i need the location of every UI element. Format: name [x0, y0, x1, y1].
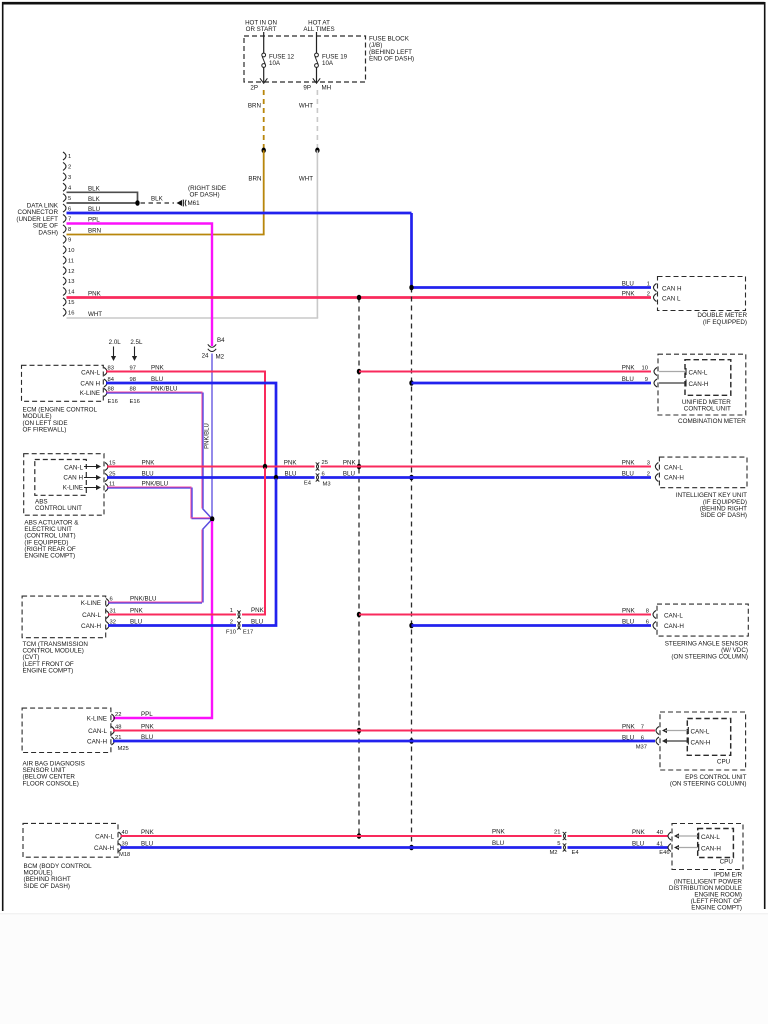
node splice BRN: [262, 148, 266, 154]
ECM pins: [104, 368, 107, 376]
wire BRN horizontal to DLC pin 8: [67, 234, 265, 236]
svg-text:41: 41: [657, 841, 663, 847]
CAN-L bus dashed vertical: [358, 298, 360, 837]
svg-text:BLU: BLU: [492, 840, 504, 847]
svg-text:6: 6: [641, 735, 644, 741]
svg-text:PPL: PPL: [141, 711, 153, 718]
svg-text:K-LINE: K-LINE: [80, 390, 100, 397]
svg-text:2.0L: 2.0L: [109, 339, 122, 346]
node K-line splice: [203, 520, 212, 530]
svg-text:PNK: PNK: [151, 365, 165, 372]
wire BLU ECM CAN-H down to ABS row: [106, 383, 276, 477]
svg-text:PNK: PNK: [141, 829, 155, 836]
wire BLU TCM CAN-H up to ABS row: [108, 479, 276, 626]
svg-text:OR START: OR START: [246, 26, 277, 33]
svg-text:2: 2: [68, 165, 71, 171]
steering angle sensor dashed box: [657, 604, 748, 636]
svg-text:10A: 10A: [269, 60, 281, 67]
svg-text:9: 9: [645, 377, 648, 383]
svg-text:MH: MH: [322, 85, 332, 92]
wire PNK/BLU TCM K-LINE: [108, 601, 202, 603]
svg-text:K-LINE: K-LINE: [81, 600, 101, 607]
svg-text:CAN-H: CAN-H: [94, 845, 114, 852]
svg-text:E16: E16: [108, 399, 118, 405]
svg-text:CAN-H: CAN-H: [701, 845, 721, 852]
svg-text:PNK: PNK: [142, 460, 156, 467]
svg-text:PNK: PNK: [130, 608, 144, 615]
connector M2 / E4 bottom row: [562, 832, 568, 841]
IPDM internal wires: [674, 833, 679, 838]
svg-text:2: 2: [647, 471, 650, 477]
svg-text:CAN-L: CAN-L: [701, 834, 720, 841]
IPDM CPU inner dashed box: [698, 829, 734, 858]
svg-text:9P: 9P: [303, 85, 311, 92]
svg-text:E46: E46: [659, 850, 669, 856]
BCM pins: [119, 832, 122, 840]
connector B4 / M2 pin 24: [208, 344, 216, 347]
svg-text:M37: M37: [636, 744, 647, 750]
wire WHT dashed from fuse 19: [316, 90, 318, 149]
svg-text:BLU: BLU: [622, 470, 634, 477]
svg-text:CAN-L: CAN-L: [691, 728, 710, 735]
svg-text:BLK: BLK: [88, 196, 101, 203]
svg-text:14: 14: [68, 290, 75, 296]
svg-text:2: 2: [230, 619, 233, 625]
wire from HOT IN ON to fuse 12: [263, 32, 265, 53]
wire BLU to double meter pin 1: [412, 286, 652, 289]
svg-text:SIDE OF DASH): SIDE OF DASH): [24, 883, 71, 890]
unified meter control unit inner dashed box: [685, 360, 731, 396]
svg-text:BLK: BLK: [151, 196, 164, 203]
svg-text:6: 6: [110, 596, 113, 602]
svg-text:10: 10: [642, 365, 648, 371]
svg-text:11: 11: [109, 481, 115, 487]
svg-text:1: 1: [68, 154, 71, 160]
ground M61: [177, 200, 183, 206]
svg-text:10A: 10A: [322, 60, 334, 67]
wire BLU bus to combination meter pin 9: [412, 382, 652, 385]
connector 2P on fuse block: [260, 78, 267, 83]
svg-text:3: 3: [647, 460, 650, 466]
connector F10 / E17: [236, 610, 242, 619]
svg-text:E4: E4: [304, 480, 312, 486]
fuse 12 10A: [262, 53, 266, 57]
wire BRN dashed from fuse 12: [263, 90, 265, 149]
svg-text:9: 9: [68, 238, 71, 244]
svg-text:M2: M2: [216, 353, 225, 360]
svg-text:PNK: PNK: [251, 607, 265, 614]
wire PNK bus to steering angle sensor pin 8: [359, 614, 651, 616]
svg-text:25: 25: [322, 460, 328, 466]
connector 9P MH on fuse block: [313, 78, 320, 83]
connector E4 / M3 on CAN rows: [315, 462, 321, 471]
svg-text:CAN-H: CAN-H: [87, 739, 107, 746]
svg-text:ALL TIMES: ALL TIMES: [303, 26, 334, 33]
wire K-line from M2 connector down to splice: [211, 354, 213, 520]
svg-text:WHT: WHT: [299, 176, 313, 183]
fuse 19 10A: [315, 53, 319, 57]
wire BLU vertical down to double meter row: [410, 213, 413, 288]
svg-text:24: 24: [202, 352, 209, 359]
svg-text:SIDE OF DASH): SIDE OF DASH): [700, 512, 747, 519]
svg-text:6: 6: [322, 471, 325, 477]
svg-text:22: 22: [115, 712, 121, 718]
ABS pins: [105, 463, 108, 471]
wire PNK/BLU splice down to TCM K-LINE: [201, 530, 203, 603]
svg-text:CAN-H: CAN-H: [691, 739, 711, 746]
wire PNK BCM CAN-L row to IPDM pin 40: [121, 835, 669, 837]
svg-text:CAN H: CAN H: [63, 475, 83, 482]
svg-text:6: 6: [646, 619, 649, 625]
svg-text:CAN-H: CAN-H: [664, 623, 684, 630]
svg-text:3: 3: [68, 175, 71, 181]
EPS pins: [656, 727, 659, 735]
svg-text:2.5L: 2.5L: [130, 339, 143, 346]
svg-text:COMBINATION METER: COMBINATION METER: [678, 418, 746, 425]
fuse block J/B dashed box: [244, 36, 366, 82]
svg-text:13: 13: [68, 279, 74, 285]
node ECM taps: [263, 464, 267, 470]
TCM dashed box: [22, 596, 106, 638]
svg-text:BLU: BLU: [622, 280, 634, 287]
svg-text:OF FIREWALL): OF FIREWALL): [23, 427, 67, 434]
svg-text:OF DASH): OF DASH): [190, 192, 220, 199]
svg-text:BLU: BLU: [251, 618, 263, 625]
svg-text:E17: E17: [243, 630, 253, 636]
svg-text:CAN H: CAN H: [662, 285, 682, 292]
svg-text:CAN-L: CAN-L: [81, 369, 100, 376]
svg-text:5: 5: [68, 196, 71, 202]
wire fuse 12 to connector 2P: [263, 67, 265, 82]
svg-text:BLU: BLU: [343, 470, 355, 477]
wire BLU air bag CAN-H row to EPS: [113, 740, 655, 743]
svg-text:K-LINE: K-LINE: [63, 484, 83, 491]
svg-text:40: 40: [657, 830, 663, 836]
svg-text:BRN: BRN: [88, 228, 101, 235]
wire fuse 19 to connector 9P: [316, 67, 318, 82]
wire PNK ABS CAN-L row to intelligent key: [107, 466, 651, 468]
svg-text:2P: 2P: [250, 85, 258, 92]
wire from HOT AT ALL TIMES to fuse 19: [316, 32, 318, 53]
BCM dashed box: [23, 823, 118, 857]
svg-text:1: 1: [647, 281, 650, 287]
svg-text:83: 83: [108, 365, 114, 371]
svg-text:2: 2: [647, 291, 650, 297]
wire BLU bus to steering angle sensor pin 6: [412, 624, 652, 627]
intelligent key pins: [655, 463, 658, 471]
svg-text:CAN-L: CAN-L: [88, 728, 107, 735]
svg-text:END OF DASH): END OF DASH): [369, 56, 414, 63]
svg-text:CAN H: CAN H: [80, 381, 100, 388]
TCM pins: [106, 599, 109, 607]
svg-text:(ON STEERING COLUMN): (ON STEERING COLUMN): [671, 654, 748, 661]
svg-text:M3: M3: [323, 481, 331, 487]
svg-text:M61: M61: [188, 200, 201, 207]
svg-text:BLU: BLU: [622, 376, 634, 383]
svg-text:ENGINE COMPT): ENGINE COMPT): [24, 553, 75, 560]
node splice WHT: [315, 148, 319, 154]
wire PNK TCM CAN-L up to ABS row: [108, 468, 265, 615]
combination meter outer dashed box: [658, 354, 746, 415]
svg-text:40: 40: [122, 830, 128, 836]
svg-text:31: 31: [110, 608, 116, 614]
svg-text:21: 21: [554, 829, 560, 835]
svg-text:8: 8: [646, 608, 649, 614]
svg-text:ENGINE COMPT): ENGINE COMPT): [23, 667, 74, 674]
ABS control unit inner dashed box: [35, 460, 87, 496]
svg-text:CAN-L: CAN-L: [82, 612, 101, 619]
svg-text:CPU: CPU: [717, 758, 731, 765]
svg-text:12: 12: [68, 269, 74, 275]
ABS pin arrows: [84, 466, 99, 468]
svg-text:CAN-H: CAN-H: [664, 475, 684, 482]
svg-text:CAN-L: CAN-L: [95, 833, 114, 840]
svg-text:11: 11: [68, 258, 74, 264]
svg-text:PNK: PNK: [622, 290, 636, 297]
svg-text:E16: E16: [130, 399, 140, 405]
double meter dashed box: [658, 277, 746, 311]
svg-text:6: 6: [68, 206, 71, 212]
svg-text:BLK: BLK: [88, 185, 101, 192]
node CAN-L bus taps: [357, 295, 361, 301]
data link connector DLC pins 1-16: [63, 152, 66, 160]
svg-text:BLU: BLU: [632, 840, 644, 847]
svg-text:CPU: CPU: [720, 859, 734, 866]
svg-text:97: 97: [130, 365, 136, 371]
svg-text:CAN-H: CAN-H: [689, 381, 709, 388]
svg-text:K-LINE: K-LINE: [87, 716, 107, 723]
svg-text:M18: M18: [119, 852, 130, 858]
svg-text:BRN: BRN: [248, 176, 261, 183]
svg-text:CAN L: CAN L: [662, 295, 681, 302]
svg-text:CAN-L: CAN-L: [64, 464, 83, 471]
svg-text:PNK: PNK: [284, 459, 298, 466]
svg-text:BLU: BLU: [284, 470, 296, 477]
IPDM pins: [668, 832, 671, 840]
svg-text:7: 7: [68, 217, 71, 223]
svg-text:CAN-H: CAN-H: [81, 623, 101, 630]
IPDM outer dashed box: [672, 824, 743, 870]
CAN-H bus dashed vertical: [411, 288, 413, 848]
intelligent key unit dashed box: [659, 457, 747, 488]
wire PNK/BLU ABS K-LINE to splice: [107, 486, 192, 488]
combination meter pins: [654, 368, 657, 376]
steering angle sensor pins: [653, 611, 656, 619]
svg-text:CAN-L: CAN-L: [689, 369, 708, 376]
svg-text:PNK: PNK: [492, 828, 506, 835]
svg-text:(IF EQUIPPED): (IF EQUIPPED): [703, 319, 747, 326]
svg-text:ENGINE COMPT): ENGINE COMPT): [691, 905, 742, 912]
wire BLU BCM CAN-H row to IPDM pin 41: [121, 846, 669, 849]
svg-text:PNK: PNK: [343, 459, 357, 466]
wire PNK air bag CAN-L row to EPS: [113, 730, 655, 732]
wire PPL splice down to air bag K-LINE: [113, 521, 212, 718]
svg-text:10: 10: [68, 248, 74, 254]
svg-text:PNK: PNK: [622, 364, 636, 371]
svg-text:PNK: PNK: [622, 459, 636, 466]
air bag diagnosis sensor unit dashed box: [22, 708, 111, 752]
svg-text:B4: B4: [217, 337, 225, 344]
svg-text:15: 15: [68, 300, 74, 306]
svg-text:CONTROL UNIT: CONTROL UNIT: [684, 405, 731, 412]
svg-text:88: 88: [130, 386, 136, 392]
wire PNK ECM CAN-L down to ABS row: [106, 372, 265, 466]
svg-text:48: 48: [115, 724, 121, 730]
svg-text:M2: M2: [549, 850, 557, 856]
svg-text:E4: E4: [572, 850, 580, 856]
wire WHT horizontal to DLC pin 16: [67, 317, 319, 319]
double meter pins: [654, 284, 657, 292]
node CAN-H bus taps: [409, 285, 413, 291]
svg-text:CAN-L: CAN-L: [664, 612, 683, 619]
svg-text:(ON STEERING COLUMN): (ON STEERING COLUMN): [670, 781, 747, 788]
svg-text:PNK/BLU: PNK/BLU: [205, 423, 211, 449]
ABS actuator outer dashed box: [24, 454, 104, 516]
svg-text:WHT: WHT: [299, 102, 313, 109]
page frame border: [2, 2, 765, 5]
svg-text:7: 7: [641, 724, 644, 730]
svg-text:88: 88: [108, 386, 114, 392]
wire PNK/BLU ECM K-LINE down to splice: [106, 391, 203, 393]
svg-text:PNK: PNK: [622, 607, 636, 614]
wire PNK bus to combination meter pin 10: [359, 371, 651, 373]
svg-text:M25: M25: [118, 746, 129, 752]
EPS internal wires: [662, 728, 667, 733]
svg-text:BLU: BLU: [622, 734, 634, 741]
page bottom edge: [0, 913, 768, 915]
EPS control unit outer dashed box: [660, 712, 746, 770]
node splice BLK: [135, 200, 139, 206]
svg-text:PNK: PNK: [141, 724, 155, 731]
svg-text:WHT: WHT: [88, 311, 102, 318]
svg-text:PNK: PNK: [622, 723, 636, 730]
wires inside combination meter: [659, 371, 685, 373]
EPS CPU inner dashed box: [687, 719, 730, 756]
svg-text:CAN-L: CAN-L: [664, 464, 683, 471]
svg-text:8: 8: [68, 227, 71, 233]
svg-text:CONTROL UNIT: CONTROL UNIT: [35, 505, 82, 512]
ECM dashed box: [22, 365, 104, 401]
svg-text:5: 5: [557, 841, 560, 847]
air bag pins: [111, 714, 114, 722]
wire BLU ABS CAN-H row to intelligent key: [107, 476, 651, 479]
svg-text:PNK: PNK: [632, 829, 646, 836]
svg-text:1: 1: [230, 608, 233, 614]
svg-text:16: 16: [68, 311, 74, 317]
svg-text:BRN: BRN: [248, 102, 261, 109]
svg-text:F10: F10: [226, 630, 236, 636]
svg-text:FLOOR CONSOLE): FLOOR CONSOLE): [23, 780, 79, 787]
svg-text:15: 15: [109, 460, 115, 466]
svg-text:DASH): DASH): [38, 229, 58, 236]
svg-text:BLU: BLU: [622, 618, 634, 625]
